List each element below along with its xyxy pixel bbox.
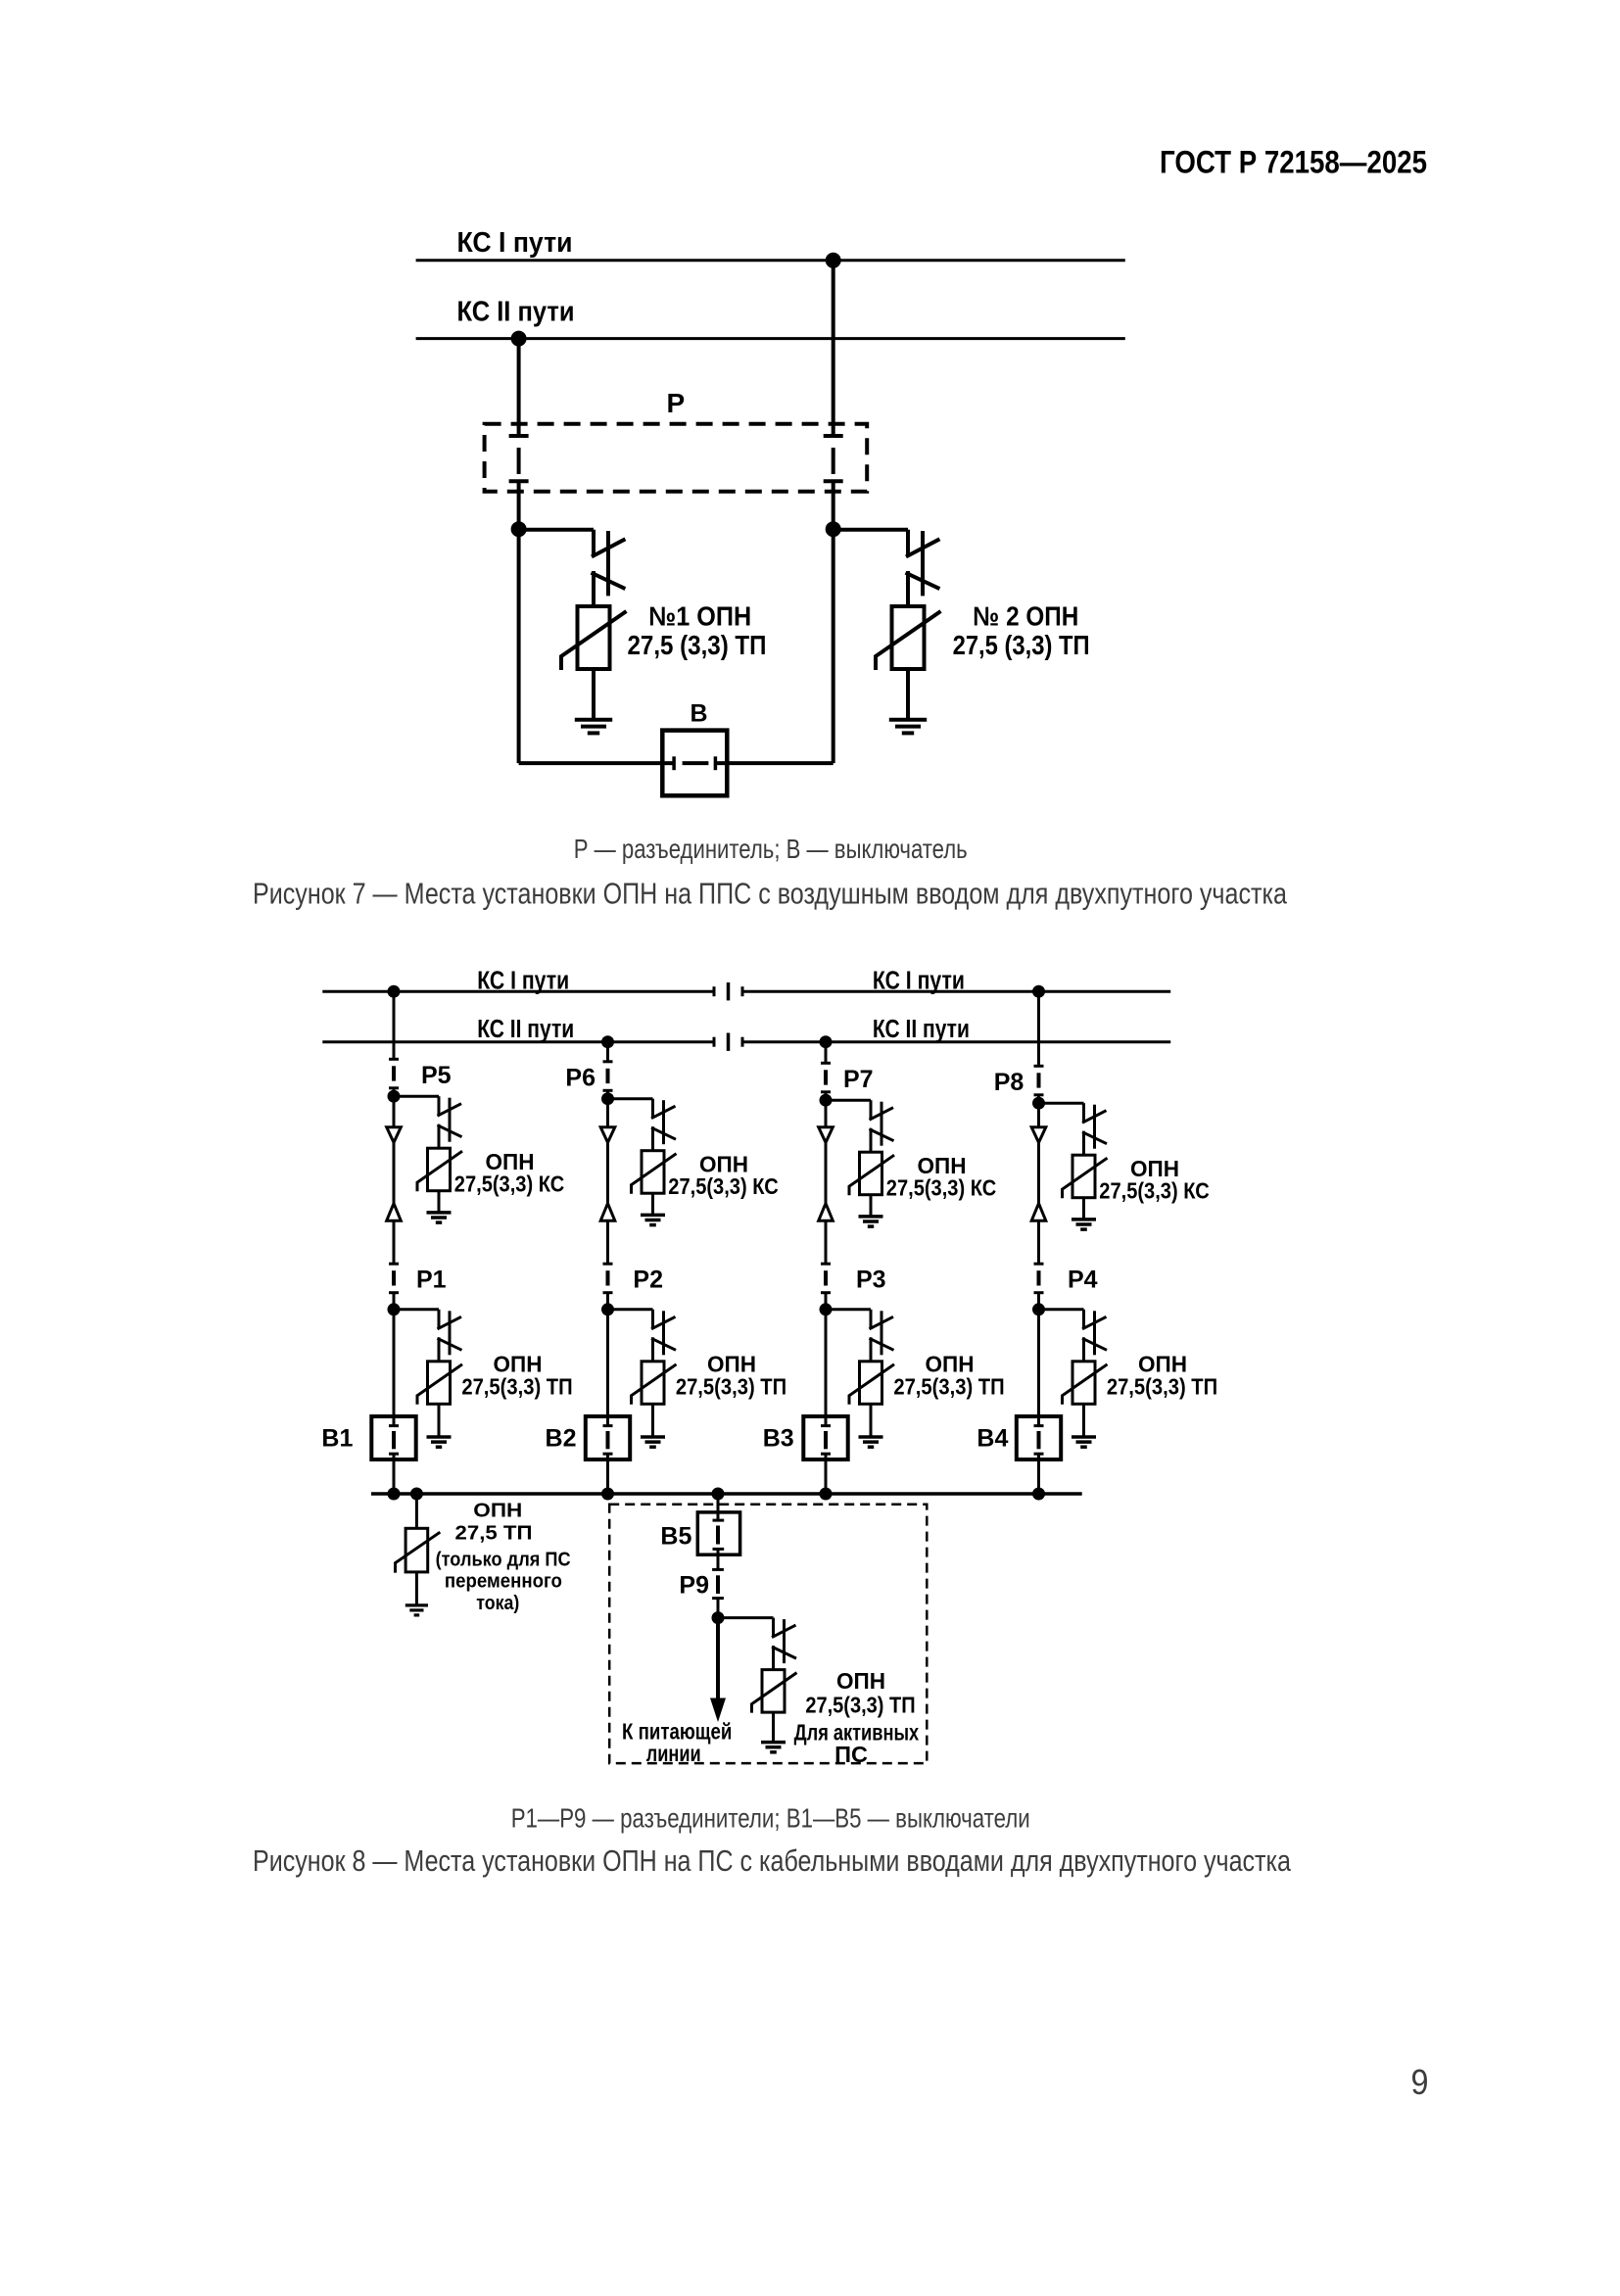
wire: tap to ТП arrester <box>1039 1308 1084 1311</box>
svg-text:Рисунок 7 — Места установки ОП: Рисунок 7 — Места установки ОПН на ППС с… <box>253 877 1288 911</box>
disconnector Р7 <box>821 1063 831 1092</box>
wire <box>1037 1292 1040 1425</box>
cable sealing end (down) <box>387 1127 402 1143</box>
cable sealing end (down) <box>600 1127 615 1143</box>
wire to bus <box>825 1454 828 1494</box>
wire <box>393 1088 396 1127</box>
node tap node Р3 <box>820 1303 833 1315</box>
ground of ОПН 27,5(3,3) ТП (active ПС) <box>761 1743 786 1752</box>
disconnector Р left pole (fig7) <box>509 436 529 481</box>
disconnector Р3 <box>821 1264 831 1293</box>
svg-text:Р: Р <box>667 388 686 418</box>
cable sealing end (up) <box>819 1204 834 1221</box>
svg-text:27,5(3,3) ТП: 27,5(3,3) ТП <box>1107 1374 1217 1400</box>
svg-text:27,5(3,3) КС: 27,5(3,3) КС <box>668 1173 778 1199</box>
svg-text:27,5(3,3) ТП: 27,5(3,3) ТП <box>805 1693 915 1718</box>
wire: tap to КС arrester <box>394 1095 439 1098</box>
wire <box>1037 1220 1040 1264</box>
surge arrester №1 ОПН 27,5 (3,3) ТП <box>561 530 627 720</box>
svg-text:Р8: Р8 <box>994 1069 1024 1096</box>
wire to bus <box>393 1454 396 1494</box>
wire: branch drop from catenary (Р6) <box>606 1042 609 1062</box>
wire: right feeder upper (fig7) <box>832 261 835 436</box>
surge arrester №2 ОПН 27,5 (3,3) ТП <box>876 530 941 720</box>
wire: branch drop from catenary (Р7) <box>825 1042 828 1064</box>
surge arrester ОПН 27,5(3,3) ТП (Р1) <box>417 1310 462 1437</box>
wire: tap to arrester №1 <box>519 528 594 532</box>
svg-text:Р5: Р5 <box>421 1062 452 1089</box>
wire into В5 <box>717 1494 720 1520</box>
cable sealing end (up) <box>1031 1204 1046 1221</box>
svg-text:КС II пути: КС II пути <box>477 1016 574 1043</box>
svg-text:Р — разъединитель; В — выключа: Р — разъединитель; В — выключатель <box>574 834 968 864</box>
svg-text:Р2: Р2 <box>633 1267 663 1294</box>
ground of ОПН 27,5(3,3) КС (Р7) <box>859 1217 883 1226</box>
svg-text:Рисунок 8 — Места установки ОП: Рисунок 8 — Места установки ОПН на ПС с … <box>253 1843 1292 1878</box>
svg-text:№1 ОПН: №1 ОПН <box>648 600 751 631</box>
wire: КС I пути left section <box>322 990 714 993</box>
svg-text:КС II пути: КС II пути <box>873 1016 970 1043</box>
ground of ОПН 27,5(3,3) ТП (Р2) <box>641 1437 665 1447</box>
ground of №1 ОПН 27,5 (3,3) ТП <box>575 720 612 734</box>
node junction right tap (fig7) <box>826 521 841 537</box>
ground of ОПН 27,5 ТП (bus) <box>405 1605 428 1615</box>
disconnector Р right pole (fig7) <box>824 436 843 481</box>
surge arrester ОПН 27,5(3,3) КС (Р8) <box>1063 1103 1108 1220</box>
breaker В1 box <box>371 1416 415 1459</box>
node node feeder tap <box>712 1611 725 1624</box>
wire <box>606 1220 609 1264</box>
node junction В1/bus <box>388 1488 401 1501</box>
svg-text:Р7: Р7 <box>843 1066 874 1093</box>
node tap node Р1 <box>388 1303 401 1315</box>
breaker В box (fig7) <box>662 731 727 796</box>
wire <box>825 1220 828 1264</box>
wire: tap to ТП arrester <box>826 1308 871 1311</box>
wire: catenary КС II пути (fig7) <box>416 337 1125 340</box>
svg-text:ОПН: ОПН <box>836 1668 885 1694</box>
cable sealing end (down) <box>819 1127 834 1143</box>
wire <box>606 1090 609 1127</box>
node junction b1/КС I <box>388 985 401 998</box>
wire <box>393 1292 396 1425</box>
node tap node Р6 <box>601 1092 614 1105</box>
ground of ОПН 27,5(3,3) ТП (Р3) <box>859 1437 883 1447</box>
svg-text:27,5(3,3) КС: 27,5(3,3) КС <box>886 1175 996 1201</box>
disconnector Р8 <box>1034 1066 1044 1095</box>
node tap node Р7 <box>820 1094 833 1107</box>
wire: left feeder upper (fig7) <box>517 339 521 436</box>
breaker В4 contact break <box>1034 1426 1044 1455</box>
cable sealing end (down) <box>1031 1127 1046 1143</box>
surge arrester ОПН 27,5 ТП (bus) <box>396 1494 441 1605</box>
disconnector Р6 <box>603 1062 613 1091</box>
svg-text:27,5(3,3) ТП: 27,5(3,3) ТП <box>676 1374 786 1400</box>
wire to bus <box>1037 1454 1040 1494</box>
wire <box>825 1092 828 1127</box>
surge arrester ОПН 27,5(3,3) ТП (Р4) <box>1063 1310 1108 1437</box>
cable sealing end (up) <box>387 1204 402 1221</box>
wire: branch drop from catenary (Р8) <box>1037 991 1040 1066</box>
svg-text:ГОСТ Р 72158—2025: ГОСТ Р 72158—2025 <box>1160 145 1427 180</box>
feeder line arrow (К питающей линии) <box>716 1618 720 1699</box>
svg-text:КС II пути: КС II пути <box>457 296 575 327</box>
svg-text:В1: В1 <box>321 1425 353 1453</box>
svg-text:ОПН: ОПН <box>473 1499 522 1521</box>
wire: КС II пути right section <box>742 1040 1170 1043</box>
node tap node Р2 <box>601 1303 614 1315</box>
node junction b2/КС II <box>601 1035 614 1048</box>
node junction bus/В5 <box>712 1488 725 1501</box>
surge arrester ОПН 27,5(3,3) ТП (Р2) <box>632 1310 677 1437</box>
wire: tap to КС arrester <box>826 1099 871 1102</box>
svg-text:(только для ПС: (только для ПС <box>436 1549 571 1571</box>
wire: bottom tie left (fig7) <box>519 761 673 765</box>
wire: cable section <box>825 1142 828 1203</box>
node junction bus/ОПН 27,5 ТП <box>410 1488 423 1501</box>
wire: substation bus <box>371 1492 1082 1496</box>
wire В5 to Р9 <box>717 1549 720 1569</box>
wire: right feeder lower (fig7) <box>832 481 835 763</box>
node junction on КС II (fig7) <box>511 331 527 347</box>
disconnector Р1 <box>389 1264 399 1293</box>
wire: КС I пути right section <box>742 990 1170 993</box>
wire: left feeder lower (fig7) <box>517 481 521 763</box>
wire: tap to arrester №2 <box>834 528 908 532</box>
ground of ОПН 27,5(3,3) КС (Р5) <box>427 1213 452 1222</box>
wire: КС II пути left section <box>322 1040 714 1043</box>
svg-text:27,5(3,3) КС: 27,5(3,3) КС <box>1099 1178 1209 1204</box>
breaker В1 contact break <box>389 1426 399 1455</box>
disconnector Р9 <box>712 1569 724 1598</box>
wire to bus <box>606 1454 609 1494</box>
ground of ОПН 27,5(3,3) ТП (Р1) <box>427 1437 452 1447</box>
svg-text:КС I пути: КС I пути <box>457 227 573 259</box>
svg-text:27,5 ТП: 27,5 ТП <box>455 1522 533 1545</box>
ground of ОПН 27,5(3,3) КС (Р8) <box>1072 1220 1096 1229</box>
surge arrester ОПН 27,5(3,3) ТП (active ПС) <box>752 1618 797 1743</box>
svg-text:27,5 (3,3) ТП: 27,5 (3,3) ТП <box>628 630 767 660</box>
node tap node Р4 <box>1032 1303 1045 1315</box>
surge arrester ОПН 27,5(3,3) КС (Р6) <box>632 1099 677 1216</box>
breaker В4 box <box>1017 1416 1061 1459</box>
wire: tap to КС arrester <box>1039 1102 1084 1105</box>
svg-text:В2: В2 <box>546 1425 577 1453</box>
surge arrester ОПН 27,5(3,3) КС (Р7) <box>849 1100 894 1217</box>
ground of ОПН 27,5(3,3) КС (Р6) <box>641 1215 665 1224</box>
wire: branch drop from catenary (Р5) <box>393 991 396 1059</box>
wire <box>393 1220 396 1264</box>
cable sealing end (up) <box>600 1204 615 1221</box>
svg-text:27,5(3,3) ТП: 27,5(3,3) ТП <box>893 1374 1004 1400</box>
svg-text:Р1: Р1 <box>416 1267 447 1294</box>
wire: tap to ТП arrester <box>394 1308 439 1311</box>
wire: catenary КС I пути (fig7) <box>416 259 1125 262</box>
breaker В contacts <box>674 756 715 770</box>
wire Р9 to node <box>717 1599 720 1618</box>
svg-text:Р3: Р3 <box>856 1267 886 1294</box>
svg-text:Р4: Р4 <box>1068 1267 1098 1294</box>
svg-text:Р6: Р6 <box>565 1065 596 1092</box>
node junction b3/КС II <box>820 1035 833 1048</box>
section break (insulated overlap) <box>714 982 742 1000</box>
disconnector Р2 <box>603 1264 613 1293</box>
surge arrester ОПН 27,5(3,3) КС (Р5) <box>417 1096 462 1213</box>
svg-text:№ 2 ОПН: № 2 ОПН <box>973 600 1078 631</box>
svg-text:27,5(3,3) КС: 27,5(3,3) КС <box>454 1172 564 1197</box>
svg-text:27,5(3,3) ТП: 27,5(3,3) ТП <box>461 1374 572 1400</box>
breaker В2 box <box>586 1416 630 1459</box>
svg-text:В4: В4 <box>977 1425 1008 1453</box>
wire: cable section <box>393 1142 396 1203</box>
breaker В5 box <box>697 1512 739 1555</box>
wire: tap to ТП arrester <box>608 1308 653 1311</box>
wire: cable section <box>606 1142 609 1203</box>
svg-text:переменного: переменного <box>445 1570 562 1593</box>
svg-text:В: В <box>690 700 707 728</box>
node junction В4/bus <box>1032 1488 1045 1501</box>
dashed enclosure (active ПС option) <box>609 1505 927 1763</box>
wire: tap to ОПН (active ПС) <box>718 1616 774 1619</box>
svg-text:ПС: ПС <box>834 1742 868 1767</box>
ground of №2 ОПН 27,5 (3,3) ТП <box>889 720 927 734</box>
node junction В3/bus <box>820 1488 833 1501</box>
breaker В5 contact break <box>713 1520 725 1549</box>
wire: cable section <box>1037 1142 1040 1203</box>
disconnector Р4 <box>1034 1264 1044 1293</box>
disconnector Р dashed outline (fig7) <box>485 424 868 492</box>
svg-text:линии: линии <box>646 1741 701 1766</box>
wire: bottom tie right (fig7) <box>717 761 834 765</box>
svg-text:9: 9 <box>1411 2062 1429 2102</box>
svg-text:Р9: Р9 <box>679 1572 709 1600</box>
svg-text:27,5 (3,3) ТП: 27,5 (3,3) ТП <box>953 630 1090 660</box>
node tap node Р5 <box>388 1090 401 1103</box>
wire <box>1037 1095 1040 1127</box>
svg-text:Р1—Р9 — разъединители; В1—В5 —: Р1—Р9 — разъединители; В1—В5 — выключате… <box>511 1803 1030 1834</box>
surge arrester ОПН 27,5(3,3) ТП (Р3) <box>849 1310 894 1437</box>
svg-text:В3: В3 <box>763 1425 794 1453</box>
breaker В2 contact break <box>603 1426 613 1455</box>
section break (insulated overlap) <box>714 1033 742 1051</box>
disconnector Р5 <box>389 1059 399 1088</box>
node junction В2/bus <box>601 1488 614 1501</box>
breaker В3 box <box>803 1416 847 1459</box>
node junction left tap (fig7) <box>511 521 527 537</box>
breaker В3 contact break <box>821 1426 831 1455</box>
node junction on КС I (fig7) <box>826 253 841 268</box>
node junction b4/КС I <box>1032 985 1045 998</box>
node tap node Р8 <box>1032 1097 1045 1110</box>
svg-text:тока): тока) <box>476 1592 519 1614</box>
wire <box>606 1292 609 1425</box>
wire: tap to КС arrester <box>608 1097 653 1100</box>
svg-text:В5: В5 <box>660 1523 691 1551</box>
wire <box>825 1292 828 1425</box>
ground of ОПН 27,5(3,3) ТП (Р4) <box>1072 1437 1096 1447</box>
